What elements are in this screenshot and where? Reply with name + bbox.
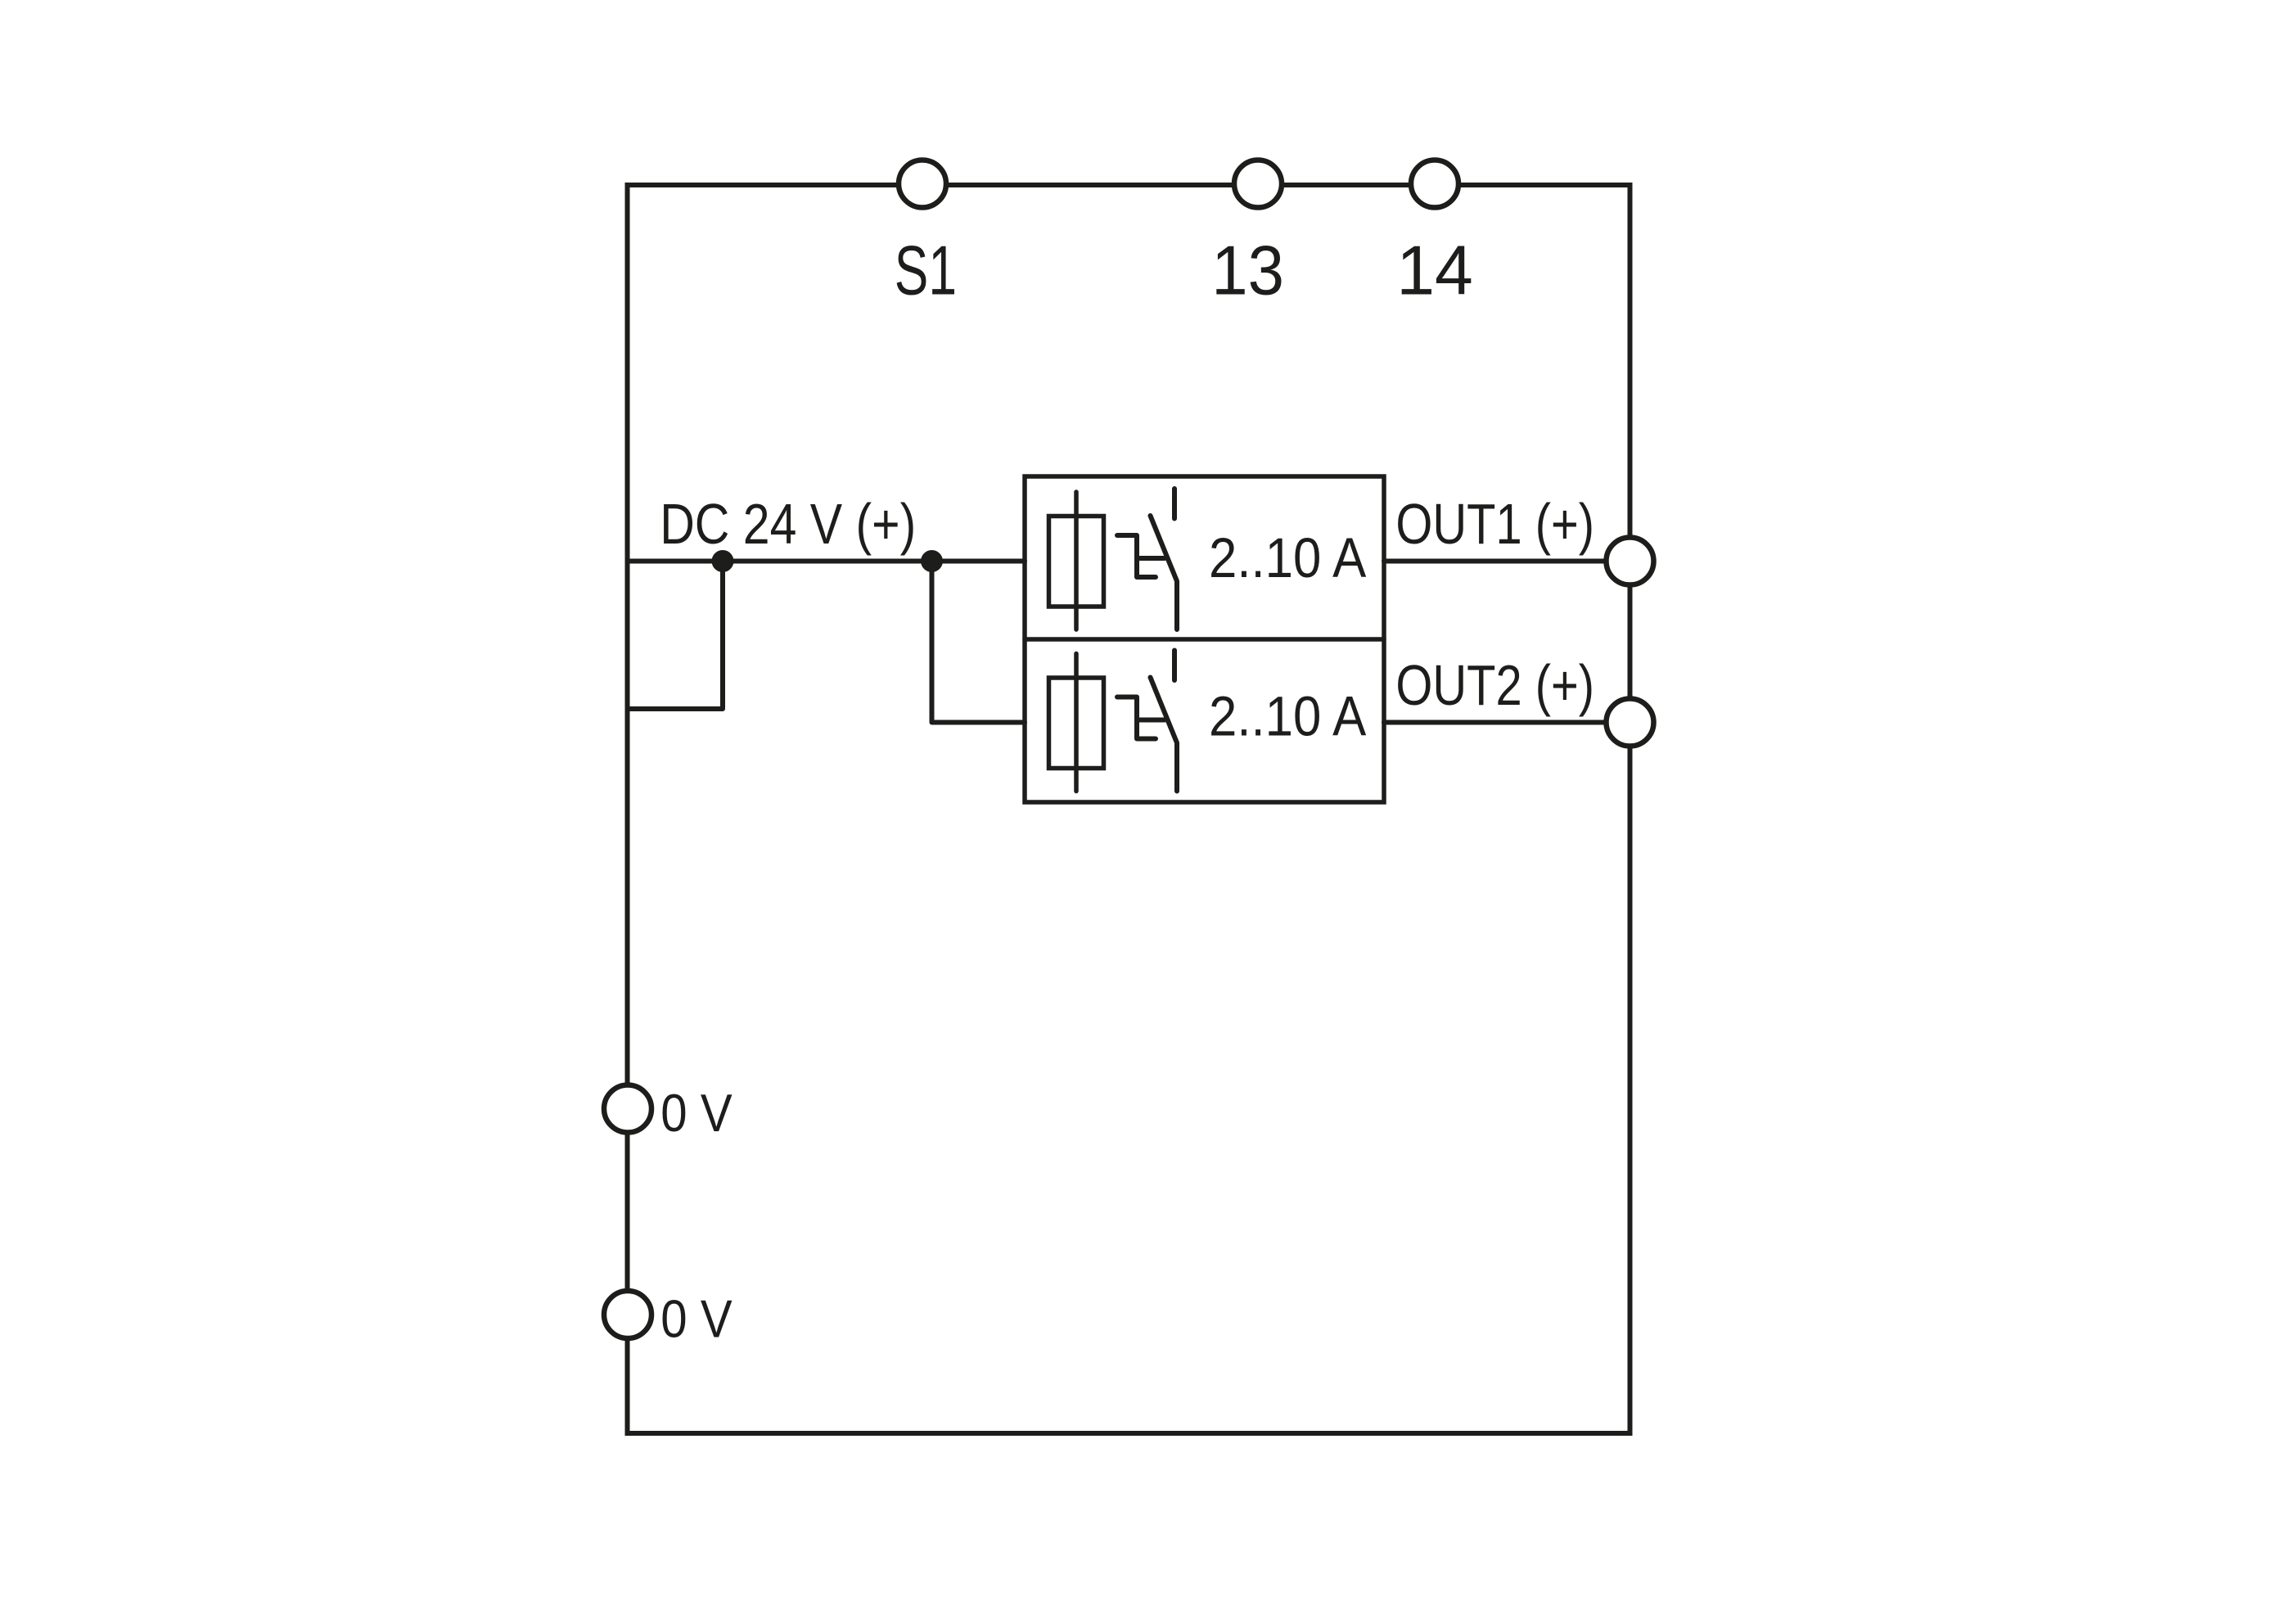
svg-text:2..10 A: 2..10 A — [1209, 526, 1367, 589]
svg-text:14: 14 — [1396, 231, 1473, 309]
svg-text:S1: S1 — [895, 232, 957, 309]
svg-text:13: 13 — [1211, 232, 1284, 309]
svg-text:OUT2 (+): OUT2 (+) — [1395, 653, 1594, 717]
svg-text:OUT1 (+): OUT1 (+) — [1395, 492, 1594, 556]
svg-text:2..10 A: 2..10 A — [1209, 685, 1367, 748]
svg-text:0 V: 0 V — [660, 1084, 732, 1144]
svg-text:0 V: 0 V — [660, 1290, 732, 1350]
svg-text:DC 24 V (+): DC 24 V (+) — [660, 491, 916, 556]
